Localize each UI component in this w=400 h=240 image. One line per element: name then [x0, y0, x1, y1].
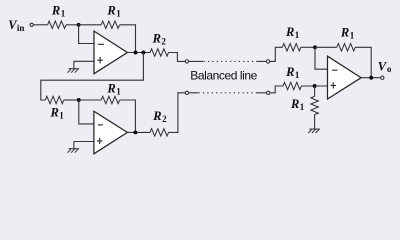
node U1 output branch: [141, 51, 145, 55]
node A junction: [77, 23, 81, 27]
resistor R1 (top-left input): [48, 21, 66, 28]
wire feedback R1 down to output node: [355, 47, 371, 77]
ground (op-amp U1): [69, 68, 80, 70]
wire feedback R1 down to output node: [120, 100, 136, 132]
wire U1 output: [127, 52, 150, 54]
svg-text:1: 1: [61, 8, 66, 18]
svg-text:R: R: [106, 81, 115, 95]
U2 minus pin mark: [98, 124, 103, 126]
U3 plus pin mark: [331, 82, 337, 88]
resistor R2 (top): [150, 49, 168, 56]
svg-text:1: 1: [116, 86, 121, 96]
wire R2 up to bottom line terminal: [169, 93, 186, 133]
output terminal: [381, 76, 384, 79]
wire non-inverting input to ground: [74, 142, 94, 149]
svg-text:R: R: [340, 25, 349, 39]
svg-text:in: in: [17, 23, 25, 33]
svg-text:1: 1: [59, 110, 64, 120]
wire feedback R1 down to output node: [120, 25, 136, 53]
wire node C to feedback R1: [315, 46, 337, 48]
svg-text:2: 2: [161, 37, 166, 47]
node U3 output junction: [369, 76, 373, 80]
wire U2 output: [127, 131, 150, 133]
svg-text:R: R: [152, 32, 161, 46]
node U2 output junction: [133, 130, 137, 134]
wire node D down to vertical R1: [314, 86, 316, 96]
U1 minus pin mark: [98, 43, 104, 45]
ground (op-amp U2): [69, 148, 80, 150]
wire terminal up to R1: [270, 86, 283, 93]
terminal bottom line left: [185, 91, 188, 94]
resistor R1 (bottom-left feedback): [101, 96, 119, 103]
resistor R1 (bottom-left input): [45, 96, 63, 103]
wire non-inverting input to ground: [74, 61, 94, 68]
wire R1 to node B: [64, 99, 79, 101]
input terminal: [30, 23, 33, 26]
op-amp U2: [94, 111, 128, 154]
wire U3 output: [361, 77, 381, 79]
svg-text:R: R: [152, 109, 161, 123]
svg-text:R: R: [290, 97, 299, 111]
op-amp U1: [94, 31, 127, 74]
svg-text:Balanced line: Balanced line: [190, 68, 257, 82]
terminal top line left: [185, 60, 188, 63]
resistor R1 (top-left feedback): [101, 21, 119, 28]
ground (receiver reference): [309, 128, 320, 130]
wire R1 to node C: [301, 46, 315, 48]
svg-text:1: 1: [300, 102, 305, 112]
wire node A to feedback R1: [79, 24, 102, 26]
node C junction: [313, 45, 317, 49]
svg-text:o: o: [387, 64, 392, 74]
svg-text:1: 1: [116, 8, 121, 18]
U1 plus pin mark: [97, 57, 103, 63]
wire node C down to inverting input: [315, 47, 328, 69]
wire terminal to dotted line: [189, 92, 198, 94]
svg-text:R: R: [50, 105, 59, 119]
svg-text:R: R: [285, 65, 294, 79]
terminal top line right: [266, 60, 269, 63]
wire R1 to ground: [314, 115, 316, 130]
wire terminal to dotted line: [189, 60, 203, 62]
svg-text:R: R: [285, 25, 294, 39]
wire terminal up to R1: [270, 47, 283, 61]
resistor R1 (bottom-right): [283, 82, 301, 89]
wire R1 to node A: [66, 24, 79, 26]
resistor R1 (shunt to ground): [311, 96, 318, 114]
wire node B down to inverting input: [79, 100, 94, 124]
svg-text:R: R: [51, 3, 60, 17]
U3 minus pin mark: [332, 69, 338, 71]
node D junction: [313, 84, 317, 88]
wire dotted to right terminal: [257, 60, 266, 62]
wire node A down to inverting input: [79, 25, 94, 44]
op-amp U3: [328, 56, 362, 99]
wire Vin to R1: [33, 24, 47, 26]
wire R1 to node D: [301, 85, 327, 87]
node U1 feedback junction: [134, 51, 138, 55]
resistor R1 (top-right input): [282, 44, 300, 51]
svg-text:1: 1: [350, 30, 355, 40]
wire U1 branch down and across to lower stage: [41, 53, 144, 101]
node B junction: [77, 98, 81, 102]
U2 plus pin mark: [97, 138, 103, 144]
svg-text:2: 2: [162, 114, 167, 124]
wire R2 to top line terminal: [169, 53, 186, 62]
terminal bottom line right: [267, 91, 270, 94]
balanced line bottom (dotted): [199, 92, 258, 94]
resistor R1 (top-right feedback): [337, 44, 355, 51]
resistor R2 (bottom): [150, 129, 168, 136]
wire dotted to right terminal: [257, 92, 267, 94]
wire node B to feedback R1: [79, 99, 101, 101]
svg-text:1: 1: [295, 30, 300, 40]
balanced line top (dotted): [204, 60, 258, 62]
svg-text:1: 1: [295, 70, 300, 80]
svg-text:R: R: [106, 3, 115, 17]
